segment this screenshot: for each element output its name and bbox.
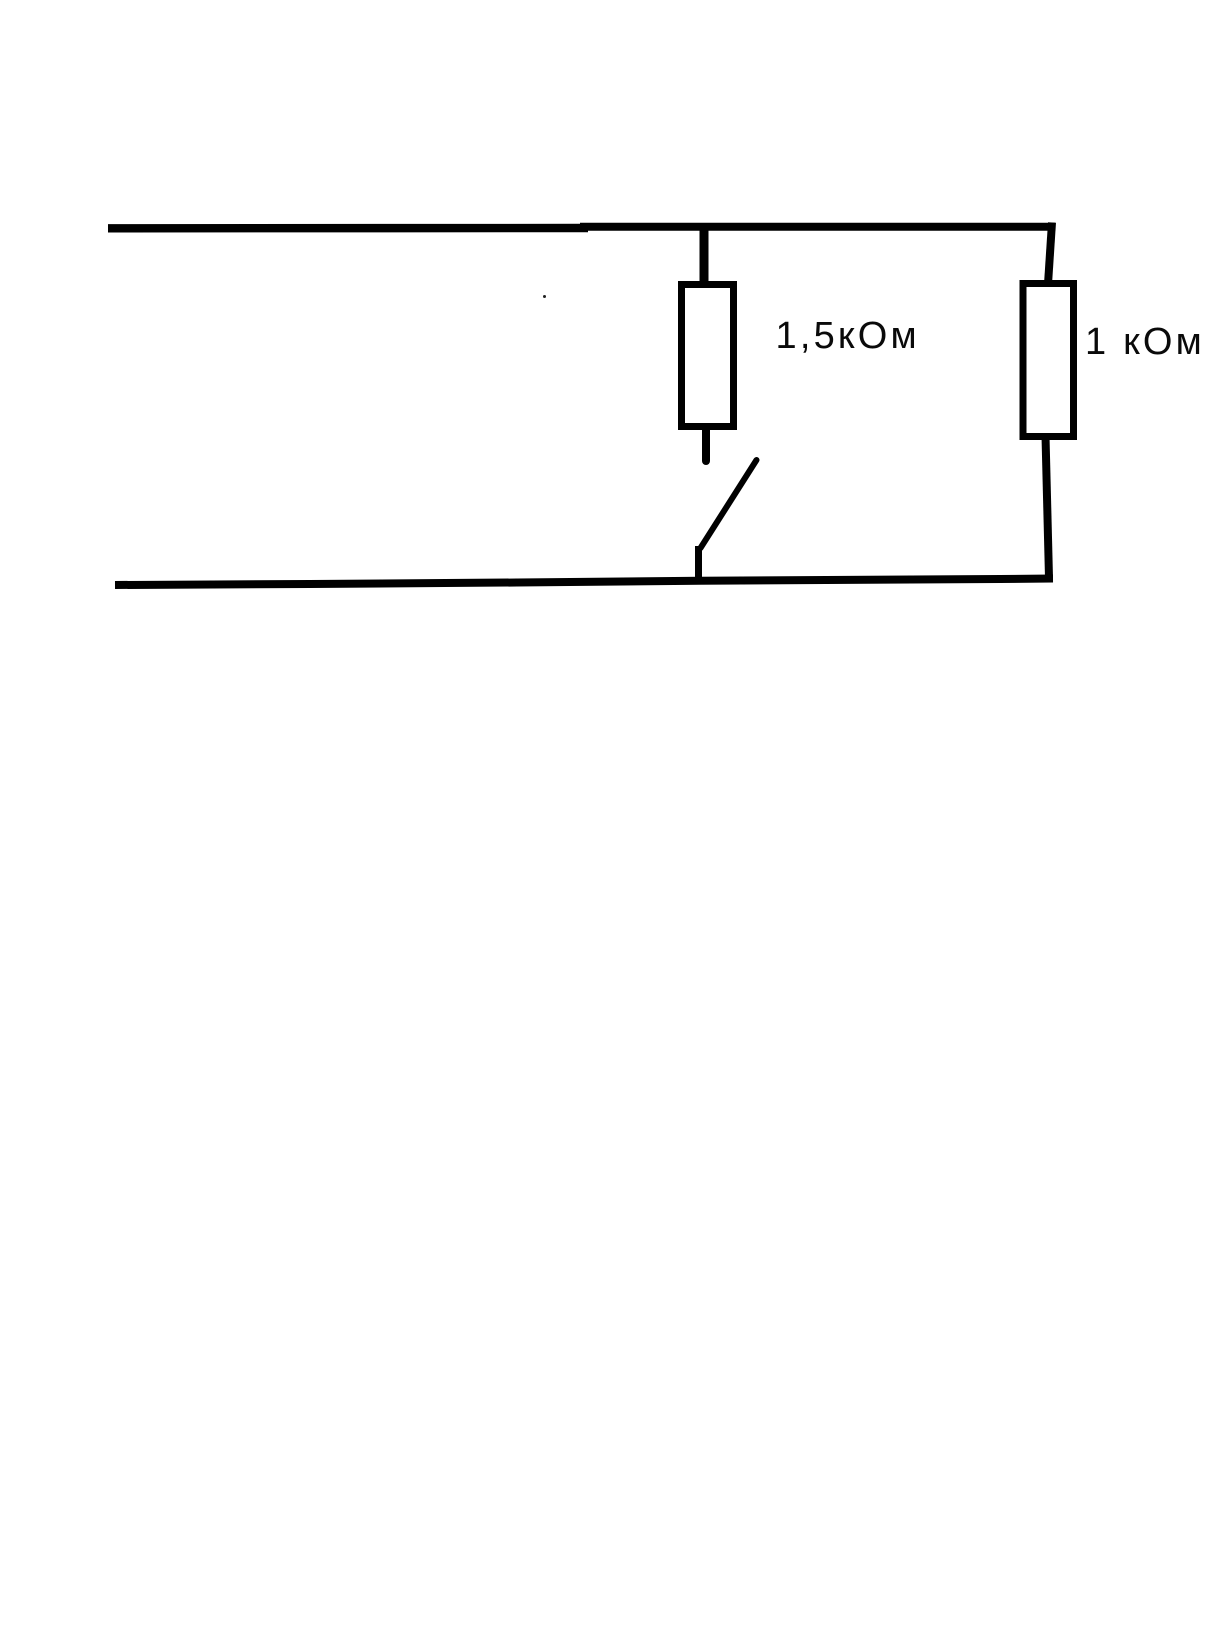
switch S1 open blade — [701, 460, 757, 548]
wire right vertical from top bus to R2 — [1048, 223, 1052, 285]
wire top bus right segment — [580, 223, 1055, 231]
node stray dot — [543, 295, 546, 298]
svg-text:1,5кОм: 1,5кОм — [776, 315, 920, 357]
switch S1 lower contact stub — [695, 546, 702, 580]
svg-text:1 кОм: 1 кОм — [1085, 321, 1205, 363]
wire bottom bus — [115, 579, 1053, 586]
wire top bus left segment — [108, 224, 588, 233]
wire vertical drop from top bus to R1 — [700, 224, 709, 286]
resistor R1 body — [682, 285, 734, 427]
wire stub below R1 to switch — [702, 428, 710, 461]
resistor R2 body — [1023, 284, 1074, 437]
wire from R2 bottom to bottom bus — [1046, 436, 1050, 578]
